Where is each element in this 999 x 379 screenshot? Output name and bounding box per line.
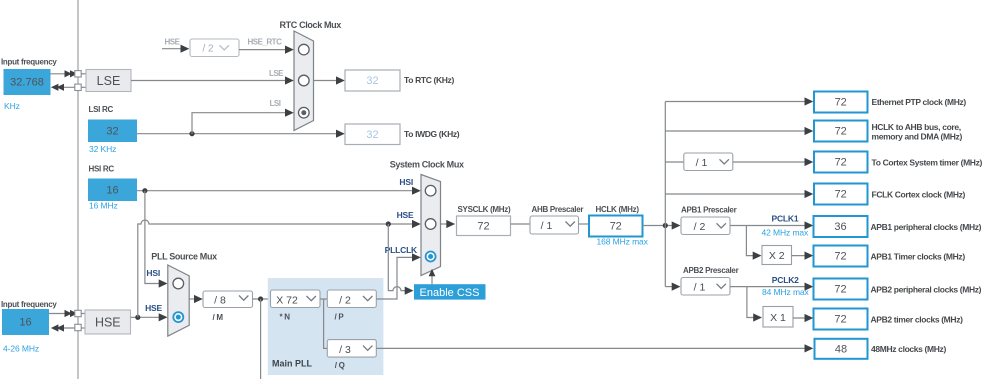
svg-text:32: 32 <box>366 129 378 141</box>
PLL /P divider dropdown /2 <box>327 290 376 308</box>
junction PLL input branch <box>258 296 263 301</box>
svg-text:To Cortex System timer (MHz): To Cortex System timer (MHz) <box>872 157 983 167</box>
wire pin stubs to HSE box <box>81 313 85 315</box>
wire rail to HCLK AHB bus <box>665 130 809 132</box>
junction HSI branch <box>142 188 147 193</box>
svg-text:32 KHz: 32 KHz <box>89 144 116 154</box>
PLL *N multiplier dropdown X72 <box>271 290 321 308</box>
APB2 timer value box 72 <box>814 309 868 330</box>
svg-text:APB2 Prescaler: APB2 Prescaler <box>683 266 739 275</box>
wire SYSCLK to AHB prescaler <box>511 223 531 225</box>
svg-text:/ P: / P <box>335 312 345 321</box>
svg-text:/ M: / M <box>213 313 224 322</box>
svg-text:36: 36 <box>834 221 846 233</box>
wire rail to Cortex timer divider <box>665 161 684 163</box>
svg-text:72: 72 <box>834 314 846 326</box>
svg-text:16: 16 <box>19 317 31 329</box>
svg-text:Main PLL: Main PLL <box>272 359 313 369</box>
svg-text:PLL Source Mux: PLL Source Mux <box>151 252 217 262</box>
svg-text:APB2 peripheral clocks (MHz): APB2 peripheral clocks (MHz) <box>871 284 982 294</box>
svg-text:/ Q: / Q <box>335 361 345 370</box>
HCLK AHB value box 72 <box>814 121 868 142</box>
wire LSE to RTC mux <box>131 80 291 82</box>
wire PLLCLK from /P to system clock mux <box>376 257 417 299</box>
svg-text:/ 3: / 3 <box>339 344 351 356</box>
To IWDG value box 32 <box>345 124 400 145</box>
svg-text:Input frequency: Input frequency <box>1 300 57 309</box>
svg-text:48MHz clocks (MHz): 48MHz clocks (MHz) <box>871 344 946 354</box>
LSE oscillator box <box>86 70 131 92</box>
wire HSE osc-out <box>55 327 78 329</box>
svg-text:72: 72 <box>834 251 846 263</box>
svg-text:RTC Clock Mux: RTC Clock Mux <box>280 20 342 30</box>
svg-text:72: 72 <box>835 189 847 201</box>
Ethernet PTP value box 72 <box>814 92 868 113</box>
wire APB2 branch to X1 <box>747 287 759 318</box>
radio sys HSE (unselected) <box>425 219 436 230</box>
wire Cortex divider to Cortex timer box <box>733 161 810 163</box>
svg-text:HSE_RTC: HSE_RTC <box>248 37 283 46</box>
junction HSE to CSS <box>386 221 391 226</box>
svg-text:72: 72 <box>834 284 846 296</box>
svg-text:HSI RC: HSI RC <box>89 165 115 174</box>
svg-text:X 72: X 72 <box>276 294 298 306</box>
svg-text:/ 1: / 1 <box>694 282 706 294</box>
wire PLL mux to /M divider <box>189 298 199 300</box>
svg-text:LSI RC: LSI RC <box>89 105 114 114</box>
radio sys PLLCLK (selected, blue) <box>426 252 436 262</box>
wire HCLK distribution rail <box>664 102 666 287</box>
radio LSI (selected) <box>299 107 310 118</box>
HSE oscillator box <box>85 310 131 334</box>
junction HSE branch <box>135 315 140 320</box>
PLL Source Mux trapezoid <box>168 265 189 336</box>
APB1 timer value box 72 <box>814 246 868 267</box>
HCLK value box 72 <box>589 216 643 237</box>
wire HSE to Enable CSS (with hop over PLLCLK) <box>388 224 409 291</box>
svg-text:memory and DMA (MHz): memory and DMA (MHz) <box>872 132 963 142</box>
wire LSE osc-out <box>55 86 78 88</box>
svg-text:48: 48 <box>835 343 847 355</box>
RTC HSE divider /2 dropdown <box>190 39 239 57</box>
junction HCLK rail <box>663 223 668 228</box>
svg-text:72: 72 <box>835 157 847 169</box>
svg-text:LSI: LSI <box>270 99 281 108</box>
Enable CSS button <box>414 284 486 299</box>
svg-text:/ 1: / 1 <box>696 157 708 169</box>
wire X2 to APB1 timer box <box>792 255 810 257</box>
svg-text:PCLK1: PCLK1 <box>772 214 799 224</box>
System Clock Mux trapezoid <box>421 175 441 276</box>
pin square OSC32_IN <box>75 71 81 77</box>
Cortex system timer value box 72 <box>814 152 868 173</box>
wire LSI branch to RTC mux <box>192 113 291 134</box>
PLL /M divider dropdown /8 <box>203 291 253 308</box>
X2 multiplier box <box>762 246 792 265</box>
X1 multiplier box <box>763 307 793 328</box>
wire HSE osc-in <box>49 313 75 315</box>
wire HSE_RTC to RTC mux <box>239 49 291 51</box>
svg-text:HSI: HSI <box>399 177 413 187</box>
svg-text:/ 8: / 8 <box>214 294 226 306</box>
wire PLL input down to bottom <box>260 299 262 379</box>
svg-text:To RTC (KHz): To RTC (KHz) <box>404 75 454 85</box>
pin square OSC_IN <box>75 310 81 316</box>
svg-text:168 MHz max: 168 MHz max <box>597 237 649 247</box>
LSI RC value box 32 <box>88 120 137 143</box>
svg-text:84 MHz max: 84 MHz max <box>762 287 810 297</box>
svg-text:LSE: LSE <box>269 69 284 78</box>
48MHz value box 48 <box>815 339 868 359</box>
wire /M to PLL N <box>253 298 271 300</box>
svg-text:HSE: HSE <box>145 303 162 313</box>
wire RTC mux output <box>314 80 342 82</box>
svg-text:/ 1: / 1 <box>541 220 553 232</box>
wire HSI to system clock mux <box>137 190 418 192</box>
wire AHB prescaler to HCLK <box>579 223 590 225</box>
svg-text:LSE: LSE <box>97 74 121 88</box>
svg-text:32.768: 32.768 <box>10 77 44 89</box>
AHB prescaler dropdown /1 <box>530 216 579 234</box>
pin square OSC_OUT <box>75 324 81 330</box>
wire rail to Ethernet PTP <box>665 101 809 103</box>
svg-text:16: 16 <box>106 185 118 197</box>
arrowheads LSE osc-out <box>51 84 59 91</box>
svg-text:AHB Prescaler: AHB Prescaler <box>532 205 584 214</box>
svg-text:* N: * N <box>280 313 291 322</box>
svg-text:Enable CSS: Enable CSS <box>420 287 480 299</box>
left boundary rail <box>77 0 79 379</box>
RTC Clock Mux trapezoid <box>294 31 314 131</box>
PLL /Q divider dropdown /3 <box>327 340 376 358</box>
wire pin stubs to LSE box <box>81 73 86 75</box>
wire HSI branch to PLL source mux <box>145 191 164 284</box>
svg-text:32: 32 <box>366 75 378 87</box>
radio HSE_RTC (unselected) <box>299 44 310 55</box>
svg-text:HCLK (MHz): HCLK (MHz) <box>596 205 640 214</box>
wire APB1 prescaler to APB1 peripheral box <box>730 225 810 227</box>
svg-text:HSE: HSE <box>95 316 121 330</box>
svg-text:72: 72 <box>610 221 622 233</box>
svg-text:72: 72 <box>835 97 847 109</box>
wire LSI to IWDG <box>137 133 342 135</box>
svg-text:APB1 Prescaler: APB1 Prescaler <box>681 205 737 214</box>
APB1 prescaler dropdown /2 <box>681 217 730 235</box>
svg-text:X 1: X 1 <box>770 312 786 324</box>
wire HSE stub to /2 divider <box>162 48 186 50</box>
svg-text:/ 2: / 2 <box>202 44 214 55</box>
svg-text:X 2: X 2 <box>769 250 785 262</box>
wire N to P <box>320 298 327 300</box>
svg-text:72: 72 <box>477 221 489 233</box>
svg-text:APB2 timer clocks (MHz): APB2 timer clocks (MHz) <box>871 314 964 324</box>
SYSCLK value box 72 <box>457 216 511 236</box>
svg-text:PLLCLK: PLLCLK <box>385 245 418 255</box>
svg-text:KHz: KHz <box>4 101 20 111</box>
svg-text:Input frequency: Input frequency <box>1 58 57 67</box>
svg-text:HCLK to AHB bus, core,: HCLK to AHB bus, core, <box>872 122 961 132</box>
svg-text:HSE: HSE <box>165 38 181 47</box>
radio PLL HSE (selected, blue) <box>173 312 183 322</box>
svg-text:Ethernet PTP clock (MHz): Ethernet PTP clock (MHz) <box>872 97 967 107</box>
svg-text:/ 2: / 2 <box>339 294 351 306</box>
junction LSI branch <box>189 131 194 136</box>
wire /Q to 48MHz clocks <box>376 347 809 349</box>
svg-text:SYSCLK (MHz): SYSCLK (MHz) <box>458 205 511 214</box>
pin square OSC32_OUT <box>75 84 81 90</box>
APB2 peripheral value box 72 <box>814 279 868 300</box>
HSI RC value box 16 <box>88 179 137 202</box>
svg-text:HSI: HSI <box>146 268 160 278</box>
radio PLL HSI (unselected) <box>173 278 184 289</box>
svg-text:FCLK Cortex clock (MHz): FCLK Cortex clock (MHz) <box>872 189 966 199</box>
svg-text:72: 72 <box>835 126 847 138</box>
svg-text:APB1 peripheral clocks (MHz): APB1 peripheral clocks (MHz) <box>871 222 982 232</box>
wire rail to APB2 prescaler <box>665 286 677 288</box>
APB1 peripheral value box 36 <box>814 216 868 237</box>
wire APB1 branch to X2 <box>746 226 758 256</box>
svg-text:32: 32 <box>106 126 118 138</box>
svg-text:APB1 Timer clocks (MHz): APB1 Timer clocks (MHz) <box>871 252 966 262</box>
wire APB2 prescaler to APB2 peripheral box <box>730 286 810 288</box>
wire HSE up-rail to system clock mux (with hop over HSI branch) <box>138 220 418 317</box>
wire LSE osc-in <box>51 73 76 75</box>
svg-text:/ 2: / 2 <box>694 221 706 233</box>
Main PLL panel <box>268 278 384 375</box>
wire HSE to PLL source mux <box>131 316 165 318</box>
wire system mux output to SYSCLK <box>441 223 452 225</box>
APB2 prescaler dropdown /1 <box>681 278 730 296</box>
svg-text:42 MHz max: 42 MHz max <box>762 227 810 237</box>
HSE input frequency value box 16 <box>2 309 49 335</box>
svg-text:4-26 MHz: 4-26 MHz <box>3 344 39 354</box>
wire rail to FCLK <box>665 193 809 195</box>
svg-text:HSE: HSE <box>397 210 414 220</box>
FCLK value box 72 <box>814 184 868 205</box>
svg-text:PCLK2: PCLK2 <box>772 275 799 285</box>
LSE input frequency value box 32.768 <box>4 69 51 95</box>
radio sys HSI (unselected) <box>425 185 436 196</box>
svg-text:16 MHz: 16 MHz <box>89 201 118 211</box>
arrowheads HSE osc-out <box>51 324 59 331</box>
radio LSE (unselected) <box>299 75 310 86</box>
Cortex timer divider dropdown /1 <box>684 153 733 171</box>
To RTC value box 32 <box>345 70 400 91</box>
svg-text:System Clock Mux: System Clock Mux <box>390 160 464 170</box>
arrowheads LSE osc-in <box>65 70 73 77</box>
wire X1 to APB2 timer box <box>793 317 810 319</box>
arrowheads HSE osc-in <box>65 310 73 317</box>
wire HCLK to APB1 prescaler <box>643 225 678 227</box>
wire Enable CSS up-arrow into mux <box>431 275 433 284</box>
wire N-P branch down to Q <box>324 299 328 348</box>
svg-text:To IWDG (KHz): To IWDG (KHz) <box>404 129 460 139</box>
